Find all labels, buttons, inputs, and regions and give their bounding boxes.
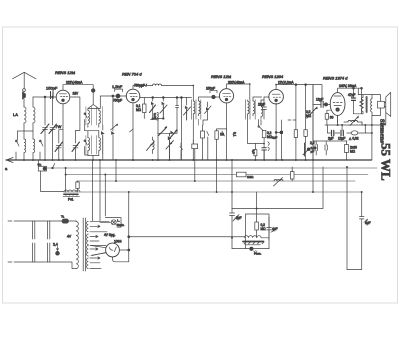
svg-text:1064: 1064 xyxy=(114,240,122,244)
right drop x314 xyxy=(312,160,314,192)
tube V2 REN704d xyxy=(126,89,140,103)
output transformer primary xyxy=(361,95,363,114)
osc bottom joining wire xyxy=(88,156,99,161)
transformer secondary 1 xyxy=(87,221,89,232)
bus left arrowhead xyxy=(7,158,14,163)
vertical bus lamp feed xyxy=(99,160,101,221)
tube V1 cathode to bus xyxy=(62,104,64,160)
tube V3 anode wire xyxy=(227,84,250,100)
svg-text:12μF: 12μF xyxy=(338,137,345,141)
bottom wire to field box xyxy=(232,248,269,250)
fuse dot xyxy=(56,251,60,255)
det switch xyxy=(259,120,264,131)
rectifier tube RGN1064 xyxy=(106,243,120,257)
osc coil form bracket upper left xyxy=(86,107,92,126)
anode wire to IF1 xyxy=(162,86,194,101)
anode feed to output transformer xyxy=(357,88,359,94)
svg-text:RENS 1264: RENS 1264 xyxy=(262,74,284,79)
svg-text:2μF: 2μF xyxy=(236,216,242,220)
fuse Tr xyxy=(60,220,62,222)
svg-text:0,03: 0,03 xyxy=(153,113,157,119)
svg-text:MΩ: MΩ xyxy=(306,114,312,118)
AVC column 2 xyxy=(305,85,307,130)
coil under padders xyxy=(153,137,155,154)
wedge x103 xyxy=(101,131,105,135)
speaker bottom wire xyxy=(372,108,381,116)
arrow under V2 cathode xyxy=(111,125,134,133)
gang arrow A xyxy=(159,129,166,136)
HT wire long xyxy=(129,236,245,238)
jumper below coils xyxy=(18,131,34,140)
speaker cone xyxy=(384,92,390,116)
IF T1 bottom leads xyxy=(192,116,194,160)
IF T2 secondary xyxy=(253,100,255,116)
speaker box xyxy=(378,101,385,108)
svg-text:RENS 12¼: RENS 12¼ xyxy=(55,70,76,75)
tone pot xyxy=(344,116,362,126)
wave coil L4 xyxy=(33,139,35,160)
osc coil pair upper right xyxy=(99,109,101,128)
wire blob to tube2 xyxy=(120,95,127,97)
osc coil form bracket lower right xyxy=(97,136,103,155)
tube V3 RENS1214 xyxy=(219,89,233,103)
svg-text:Gr.: Gr. xyxy=(38,163,42,167)
arrow at coil xyxy=(147,142,155,151)
tube V2 cathode lead xyxy=(132,103,134,160)
small switch under V3 xyxy=(222,130,227,160)
tube V4 RENS1264 xyxy=(269,89,284,104)
joining line lower xyxy=(158,132,177,134)
series cap 150pF xyxy=(51,92,54,99)
svg-text:REN 704 d: REN 704 d xyxy=(122,72,142,77)
pot on rail4 xyxy=(274,178,284,187)
IF transformer T2 left form xyxy=(246,100,250,120)
output transformer secondary xyxy=(371,95,372,116)
antenna coil L1 xyxy=(24,106,26,123)
grid leak drop x113 xyxy=(112,96,114,131)
dial lamp xyxy=(111,220,116,225)
volume pot xyxy=(307,85,317,160)
dashes under V4 xyxy=(288,119,296,121)
padder col 4 xyxy=(186,98,188,106)
osc coil pair lower left xyxy=(88,131,90,156)
svg-text:2,5: 2,5 xyxy=(310,141,315,145)
mains cap bank 1 xyxy=(33,221,35,262)
coupling coil L2 xyxy=(33,104,35,123)
grid cap blob V1 xyxy=(91,89,95,93)
wedge arrow x170 xyxy=(168,136,172,140)
drop into box xyxy=(256,192,258,222)
svg-text:Siemens: Siemens xyxy=(379,119,386,143)
vertical rect drop xyxy=(128,192,130,262)
padder col 3 xyxy=(176,98,179,134)
mid horizontal y208 xyxy=(232,167,323,209)
band switch S1 xyxy=(16,140,19,160)
svg-text:2μF: 2μF xyxy=(272,136,277,140)
transformer secondary 4 xyxy=(87,258,89,269)
antenna node xyxy=(23,89,26,92)
padder coil 0,03 xyxy=(151,112,159,120)
svg-text:Pot.: Pot. xyxy=(68,198,74,202)
small box x195 xyxy=(192,144,198,149)
grid blob V5 xyxy=(324,103,327,106)
svg-text:△ 0,02: △ 0,02 xyxy=(349,137,359,141)
taps rectifier xyxy=(90,248,106,256)
resistor under det xyxy=(262,131,266,138)
cap bars A xyxy=(332,130,334,135)
osc top joining wire xyxy=(88,108,99,110)
field coil core bar xyxy=(243,241,264,243)
svg-text:12V,0,2mA: 12V,0,2mA xyxy=(278,81,294,85)
pot left bottom xyxy=(64,190,80,192)
tube V5 cathode xyxy=(337,115,339,123)
primary return wire xyxy=(354,113,364,115)
svg-text:2μF: 2μF xyxy=(328,137,334,141)
svg-text:4μF: 4μF xyxy=(272,227,278,231)
osc mid joining wire xyxy=(85,130,99,132)
rectifier bottom return xyxy=(113,257,129,262)
extra bus dots xyxy=(52,83,315,193)
tiny mark x181 xyxy=(180,143,183,160)
trimmer C2 xyxy=(50,97,55,160)
left pot 0,05 xyxy=(303,143,308,156)
wire loop to pot xyxy=(41,171,65,192)
tube V2 right lead xyxy=(140,96,192,98)
small box on rails xyxy=(291,172,295,180)
vertical heater drop xyxy=(115,160,117,181)
svg-text:μF: μF xyxy=(311,150,315,154)
mains terminal bottom xyxy=(8,262,76,269)
grid wire V4 xyxy=(264,96,269,98)
osc coil form bracket upper right xyxy=(97,107,103,126)
row stub links xyxy=(328,125,366,133)
secondary taps top group xyxy=(90,221,109,232)
anode choke coil xyxy=(153,84,162,86)
lightning arrester xyxy=(23,92,26,107)
resistor zigzag xyxy=(360,88,364,114)
box under V3 left xyxy=(201,131,205,138)
column x158 to bus xyxy=(157,133,159,160)
IF T1 primary coil xyxy=(193,100,195,116)
svg-text:RENS 12¼: RENS 12¼ xyxy=(211,74,232,79)
heater tap SPg xyxy=(90,235,98,237)
cap bars B xyxy=(341,130,343,135)
rail 3 xyxy=(66,174,368,176)
small resistor x77 xyxy=(76,182,79,189)
output transformer core xyxy=(366,97,368,112)
right drop x361 cap 8uF xyxy=(360,192,365,270)
IF transformer T1 left form xyxy=(192,100,197,120)
tone cap row 2 a xyxy=(315,141,317,155)
rail 2 xyxy=(47,167,378,169)
wire coil bottoms xyxy=(24,123,33,139)
cap under V4 xyxy=(280,120,282,160)
IF T2 primary xyxy=(248,100,250,116)
gang arrow B xyxy=(169,132,176,140)
cathode resistor V3 xyxy=(216,129,218,131)
tube V1 grid leads xyxy=(56,96,75,98)
padder col 2 xyxy=(162,97,164,99)
svg-text:150pF: 150pF xyxy=(46,86,58,91)
vertical bus to transformer xyxy=(92,160,94,221)
svg-text:750pF: 750pF xyxy=(113,99,122,103)
wire L2 top to grid wire xyxy=(32,97,34,104)
padder col 1 xyxy=(152,97,154,99)
transformer core xyxy=(83,218,85,271)
screen resistor R1 xyxy=(143,98,145,105)
grid wire node to tube 1 xyxy=(33,96,50,98)
rail 5 xyxy=(64,191,362,193)
T1 trimmer xyxy=(199,97,212,100)
cathode resistor V5 xyxy=(325,114,328,120)
tube V4 cathode xyxy=(275,103,277,160)
svg-text:0,1: 0,1 xyxy=(233,132,237,137)
trimmer C4 xyxy=(73,131,78,161)
grid cap blob V3 xyxy=(212,95,216,99)
band switch S2 xyxy=(40,140,43,160)
resistor on rail3 xyxy=(237,172,247,177)
coupling cap 12uF to output grid xyxy=(313,103,321,105)
wire to tube3 xyxy=(215,96,219,98)
svg-text:55 WL: 55 WL xyxy=(379,143,394,181)
AVC column 1 xyxy=(295,85,297,130)
svg-text:150pF: 150pF xyxy=(206,87,215,91)
grid cap blob V2 xyxy=(116,94,120,98)
svg-text:RENS 1374 d: RENS 1374 d xyxy=(323,76,348,81)
tube V5 RENS1374d output xyxy=(330,93,345,116)
vertical x65.6 xyxy=(65,168,67,192)
junction dots y125 xyxy=(337,124,373,134)
taps mid xyxy=(90,241,106,246)
tone cap row 2 b xyxy=(325,141,327,155)
svg-text:12μF: 12μF xyxy=(316,98,323,102)
tube V5 cathode network line y125 xyxy=(325,113,386,126)
svg-text:MΩ: MΩ xyxy=(136,108,142,112)
cap bracket over blob xyxy=(115,89,123,92)
wedge x113 xyxy=(111,131,115,135)
switch contact on rail2 xyxy=(53,164,55,169)
tube V2 anode lead up xyxy=(133,86,153,90)
svg-text:60: 60 xyxy=(330,116,334,120)
wave coil L3 xyxy=(24,139,26,160)
svg-text:18V: 18V xyxy=(73,92,80,96)
mains terminal top xyxy=(8,220,60,222)
rectifier leads xyxy=(91,246,106,256)
joining line padders xyxy=(153,119,164,134)
vertical rail3 drop xyxy=(104,175,106,217)
tube V3 cathode xyxy=(226,103,228,130)
antenna xyxy=(13,72,37,88)
tube V1 RENS1204 xyxy=(56,90,70,104)
main chassis bus xyxy=(6,159,372,161)
speaker top wire xyxy=(358,95,380,102)
osc switch upper xyxy=(85,113,88,131)
field coil xyxy=(244,236,269,238)
speaker plug dot xyxy=(250,247,253,250)
cap 47uF xyxy=(353,88,355,97)
screen resistor 0,5 xyxy=(254,150,257,156)
capsule component xyxy=(351,131,358,135)
transformer primary xyxy=(76,221,78,269)
svg-text:50: 50 xyxy=(220,133,224,137)
tube V4 anode wire xyxy=(276,85,322,102)
svg-text:MΩ: MΩ xyxy=(350,150,356,154)
svg-text:222V,42mA: 222V,42mA xyxy=(66,80,83,84)
svg-text:4V: 4V xyxy=(67,235,72,239)
svg-text:47μF: 47μF xyxy=(348,93,355,97)
tube V5 anode wire xyxy=(338,88,362,92)
wire osc to grid of V2 xyxy=(99,96,116,109)
svg-text:2,4: 2,4 xyxy=(53,243,58,247)
lamp bracket xyxy=(100,218,121,228)
svg-text:1MΩ: 1MΩ xyxy=(247,175,254,179)
svg-text:8μF: 8μF xyxy=(365,221,371,225)
T2 cap 11pF xyxy=(253,97,262,100)
svg-text:0,5: 0,5 xyxy=(252,150,256,155)
gramophone jack Gr xyxy=(37,160,39,166)
svg-text:LA: LA xyxy=(13,112,18,117)
svg-text:Skala: Skala xyxy=(117,223,125,227)
detector coil L5 xyxy=(261,100,263,119)
svg-text:MΩ: MΩ xyxy=(261,227,267,231)
box resistor xyxy=(255,222,259,230)
osc coil pair upper left xyxy=(88,109,90,128)
junction dots rails xyxy=(23,159,363,239)
trimmer C1 xyxy=(43,97,48,160)
screen bypass row y133 xyxy=(328,132,372,134)
IF T1 secondary coil xyxy=(199,100,201,116)
transformer secondary 3 xyxy=(87,246,89,257)
field coil box xyxy=(245,214,269,249)
right drop x347 xyxy=(346,167,348,270)
rail 4 xyxy=(77,180,356,182)
wire cap to tube xyxy=(53,96,56,98)
filter cap 2uF xyxy=(230,160,235,249)
speaker return drop xyxy=(371,116,373,161)
det cap xyxy=(263,138,265,148)
svg-text:TW: TW xyxy=(55,124,61,129)
tone row2 feed line xyxy=(313,140,347,142)
box cap 4uF xyxy=(267,217,272,240)
osc coil form bracket lower left xyxy=(86,136,92,155)
svg-text:4V Spg.: 4V Spg. xyxy=(104,233,115,237)
svg-text:Phon.: Phon. xyxy=(254,252,262,256)
bottom right wire xyxy=(347,269,362,271)
taps bottom group xyxy=(90,257,101,269)
tube V5 cathode lead to line xyxy=(337,115,339,125)
transformer secondary 2 xyxy=(87,234,89,245)
svg-text:1,5nF: 1,5nF xyxy=(112,84,123,89)
osc coil pair lower right xyxy=(99,131,101,156)
svg-text:Tr.: Tr. xyxy=(61,215,65,219)
vertical col x181.4 xyxy=(180,98,182,161)
mains cap bank 2 xyxy=(48,221,50,262)
tone box row 2 xyxy=(345,145,349,153)
osc switch lower xyxy=(85,140,88,155)
trimmer C3 xyxy=(56,130,61,160)
tube V1 anode lead xyxy=(63,85,93,91)
